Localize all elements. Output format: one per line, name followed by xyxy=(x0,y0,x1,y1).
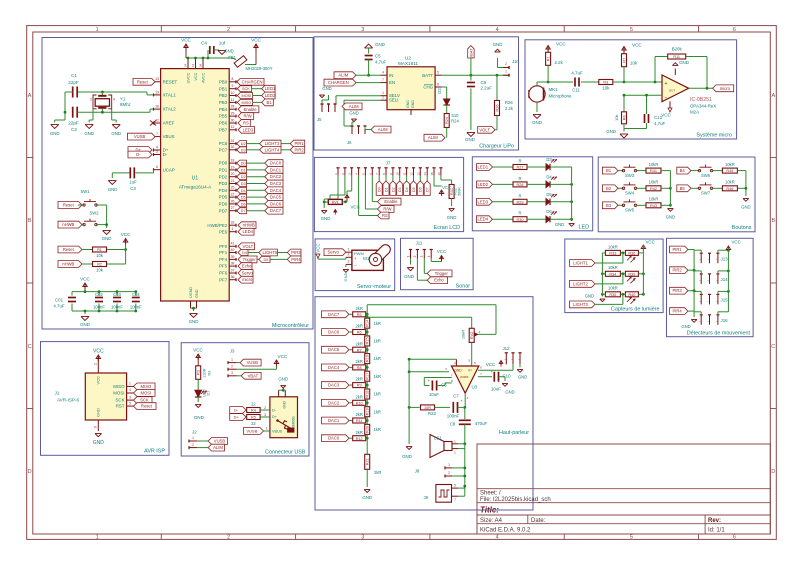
svg-text:R: R xyxy=(518,193,521,198)
svg-text:File: I2L2025bis.kicad_sch: File: I2L2025bis.kicad_sch xyxy=(480,497,551,503)
svg-text:6: 6 xyxy=(156,165,158,169)
svg-text:D4: D4 xyxy=(546,174,552,179)
svg-text:−: − xyxy=(354,263,357,268)
svg-text:PF5: PF5 xyxy=(219,264,228,269)
svg-text:R24: R24 xyxy=(451,119,459,124)
svg-text:27: 27 xyxy=(231,206,235,210)
svg-text:SW7: SW7 xyxy=(701,191,711,196)
svg-text:KiCad E.D.A. 9.0.2: KiCad E.D.A. 9.0.2 xyxy=(480,528,531,534)
svg-text:1kR: 1kR xyxy=(374,321,381,326)
svg-text:GND: GND xyxy=(493,42,503,47)
svg-text:PB0: PB0 xyxy=(219,79,228,84)
svg-text:SW4: SW4 xyxy=(625,191,635,196)
svg-text:R36: R36 xyxy=(628,252,635,256)
svg-text:R3: R3 xyxy=(603,81,608,85)
svg-text:VCC: VCC xyxy=(732,240,741,245)
svg-text:SW5: SW5 xyxy=(625,208,635,213)
svg-text:D6: D6 xyxy=(419,187,423,192)
svg-text:R/W: R/W xyxy=(244,114,252,119)
svg-text:33: 33 xyxy=(231,221,235,225)
svg-text:J14: J14 xyxy=(721,277,729,282)
svg-text:Reset: Reset xyxy=(63,247,75,252)
svg-text:38: 38 xyxy=(231,262,235,266)
svg-text:PIR1: PIR1 xyxy=(294,141,304,146)
svg-text:2: 2 xyxy=(505,62,507,66)
svg-text:+: + xyxy=(354,256,357,261)
svg-text:8: 8 xyxy=(232,77,234,81)
svg-text:GND: GND xyxy=(93,440,105,446)
svg-text:D3: D3 xyxy=(241,148,246,152)
svg-text:+: + xyxy=(665,81,668,87)
svg-text:LED4: LED4 xyxy=(242,229,253,234)
svg-text:13: 13 xyxy=(416,172,420,176)
svg-text:nHWB: nHWB xyxy=(62,262,74,267)
svg-text:D7: D7 xyxy=(426,187,430,192)
svg-text:R34: R34 xyxy=(609,272,616,276)
svg-text:GND: GND xyxy=(505,390,514,395)
svg-text:D5: D5 xyxy=(241,196,246,200)
svg-text:~: ~ xyxy=(699,258,701,262)
svg-text:Echo: Echo xyxy=(434,278,444,283)
svg-text:J5: J5 xyxy=(317,117,322,122)
svg-text:Enable: Enable xyxy=(244,107,258,112)
svg-text:C: C xyxy=(771,344,775,350)
svg-text:DAC2: DAC2 xyxy=(328,400,340,405)
svg-text:LED: LED xyxy=(579,225,590,231)
svg-text:J13: J13 xyxy=(721,257,729,262)
svg-text:Microphone: Microphone xyxy=(549,94,572,99)
svg-text:MOSI: MOSI xyxy=(113,391,124,396)
svg-text:~: ~ xyxy=(716,258,718,262)
svg-text:Reset: Reset xyxy=(141,404,153,409)
svg-text:LM386: LM386 xyxy=(460,375,469,379)
svg-text:4: 4 xyxy=(113,97,115,101)
svg-text:Enable: Enable xyxy=(384,199,398,204)
svg-text:1: 1 xyxy=(448,463,450,467)
svg-text:D-: D- xyxy=(136,152,141,157)
svg-text:GND: GND xyxy=(555,222,564,227)
svg-text:SCK: SCK xyxy=(115,398,124,403)
svg-text:PF6: PF6 xyxy=(219,271,228,276)
svg-text:MISO: MISO xyxy=(141,384,152,389)
svg-text:R8: R8 xyxy=(357,366,362,370)
svg-text:XTAL1: XTAL1 xyxy=(163,93,177,98)
svg-text:10kR: 10kR xyxy=(608,265,618,270)
svg-text:R26: R26 xyxy=(505,100,513,105)
svg-text:MISO: MISO xyxy=(242,101,252,105)
svg-text:Trigger: Trigger xyxy=(435,271,449,276)
svg-text:PIR1: PIR1 xyxy=(672,247,682,252)
svg-text:MAX1811: MAX1811 xyxy=(398,61,418,66)
svg-text:RESET: RESET xyxy=(163,79,178,84)
svg-text:D1: D1 xyxy=(241,168,246,172)
svg-text:DAC7: DAC7 xyxy=(270,208,282,213)
svg-text:J7: J7 xyxy=(386,161,391,166)
svg-text:J3: J3 xyxy=(230,349,235,354)
svg-text:PIR3: PIR3 xyxy=(291,250,301,255)
svg-text:D3: D3 xyxy=(241,182,246,186)
svg-text:GND: GND xyxy=(189,319,199,324)
svg-text:R35: R35 xyxy=(609,293,616,297)
svg-text:510: 510 xyxy=(452,113,460,118)
svg-text:~: ~ xyxy=(716,320,718,324)
svg-text:D5: D5 xyxy=(546,192,552,197)
svg-text:2: 2 xyxy=(192,443,194,447)
svg-text:~: ~ xyxy=(707,258,709,262)
svg-text:2kR: 2kR xyxy=(355,359,362,364)
svg-text:GND: GND xyxy=(50,131,60,136)
svg-text:GND: GND xyxy=(585,294,594,299)
svg-text:R/W: R/W xyxy=(383,207,391,212)
svg-text:U3: U3 xyxy=(472,385,478,390)
svg-text:VCC: VCC xyxy=(646,240,655,245)
svg-text:M1: M1 xyxy=(363,256,370,261)
svg-text:PD3: PD3 xyxy=(219,181,228,186)
svg-text:Servo: Servo xyxy=(327,250,339,255)
svg-text:C11: C11 xyxy=(572,88,580,93)
svg-text:R41: R41 xyxy=(650,169,657,173)
svg-text:220R: 220R xyxy=(203,368,207,377)
svg-text:Connecteur USB: Connecteur USB xyxy=(265,450,306,456)
svg-text:D+: D+ xyxy=(234,415,240,420)
svg-text:R: R xyxy=(518,159,521,164)
svg-text:1uF: 1uF xyxy=(129,180,137,185)
svg-text:Trigger: Trigger xyxy=(243,257,257,262)
svg-text:30: 30 xyxy=(231,118,235,122)
svg-text:M2A: M2A xyxy=(690,110,699,115)
svg-text:RS: RS xyxy=(243,121,249,126)
svg-text:2kR: 2kR xyxy=(374,470,381,475)
svg-text:4.7uF: 4.7uF xyxy=(53,304,65,309)
svg-text:10: 10 xyxy=(231,91,235,95)
svg-text:A: A xyxy=(28,93,32,99)
svg-text:GND: GND xyxy=(606,129,616,134)
svg-text:VUSB: VUSB xyxy=(134,134,146,139)
svg-text:~: ~ xyxy=(699,279,701,283)
svg-text:D2: D2 xyxy=(241,142,246,146)
svg-text:RS: RS xyxy=(382,213,388,218)
svg-text:LIGHT1: LIGHT1 xyxy=(573,261,588,266)
svg-text:R43: R43 xyxy=(650,204,657,208)
svg-text:4,7uF: 4,7uF xyxy=(571,71,583,76)
svg-text:GND: GND xyxy=(465,137,475,142)
svg-text:14: 14 xyxy=(191,64,195,67)
svg-text:DAC4: DAC4 xyxy=(270,188,282,193)
svg-text:J2: J2 xyxy=(192,430,197,435)
svg-text:GND: GND xyxy=(741,205,750,210)
svg-text:LIGHT3: LIGHT3 xyxy=(265,141,280,146)
svg-text:31: 31 xyxy=(231,139,235,143)
svg-text:AREF: AREF xyxy=(163,121,175,126)
svg-text:VCC: VCC xyxy=(121,232,131,237)
svg-text:26: 26 xyxy=(231,199,235,203)
svg-text:PB2: PB2 xyxy=(219,93,228,98)
svg-text:5: 5 xyxy=(454,483,456,487)
svg-text:−: − xyxy=(665,95,668,101)
svg-text:2kR: 2kR xyxy=(355,430,362,435)
svg-text:Boutons: Boutons xyxy=(732,225,752,231)
svg-text:LED1: LED1 xyxy=(478,165,489,170)
svg-text:1: 1 xyxy=(231,358,233,362)
svg-text:12: 12 xyxy=(410,172,414,176)
svg-text:PD1: PD1 xyxy=(219,168,228,173)
svg-text:VCC: VCC xyxy=(316,243,321,252)
svg-text:1kR: 1kR xyxy=(374,374,381,379)
svg-text:11: 11 xyxy=(403,172,407,175)
svg-text:4: 4 xyxy=(156,145,158,149)
svg-text:GND: GND xyxy=(447,215,457,220)
svg-text:RV1: RV1 xyxy=(332,201,339,205)
svg-text:3: 3 xyxy=(231,371,233,375)
svg-text:DAC0: DAC0 xyxy=(270,161,282,166)
svg-text:VCC: VCC xyxy=(96,376,101,385)
svg-text:R9: R9 xyxy=(357,384,362,388)
svg-text:D4: D4 xyxy=(241,189,246,193)
svg-text:GND: GND xyxy=(108,187,118,192)
svg-text:VUSB: VUSB xyxy=(246,429,257,434)
svg-text:micro: micro xyxy=(242,277,253,282)
svg-text:D6: D6 xyxy=(546,209,552,214)
svg-text:GND: GND xyxy=(322,86,331,91)
svg-text:LS1: LS1 xyxy=(434,436,442,441)
svg-text:25: 25 xyxy=(231,186,235,190)
svg-text:Chargeur LiPo: Chargeur LiPo xyxy=(479,144,514,150)
svg-text:RST: RST xyxy=(116,404,125,409)
svg-text:C01: C01 xyxy=(55,298,64,303)
svg-text:3: 3 xyxy=(361,535,364,541)
svg-text:39: 39 xyxy=(231,255,235,259)
svg-text:GND: GND xyxy=(321,216,331,221)
svg-text:10kR: 10kR xyxy=(649,180,659,185)
svg-text:PIR4: PIR4 xyxy=(291,257,301,262)
svg-text:CHG: CHG xyxy=(423,85,433,90)
svg-text:~: ~ xyxy=(707,279,709,283)
svg-text:C1: C1 xyxy=(71,73,77,78)
svg-text:Sonar: Sonar xyxy=(456,284,471,290)
svg-text:Ecran LCD: Ecran LCD xyxy=(434,225,460,231)
svg-text:SCK: SCK xyxy=(242,87,250,91)
svg-text:J16: J16 xyxy=(721,318,729,323)
svg-text:GND: GND xyxy=(362,495,372,500)
svg-text:Size: A4: Size: A4 xyxy=(480,518,503,524)
svg-text:BATT: BATT xyxy=(422,73,433,78)
svg-text:B2: B2 xyxy=(606,186,612,191)
svg-text:HWB/PE2: HWB/PE2 xyxy=(207,223,227,228)
svg-text:LED2: LED2 xyxy=(265,93,276,98)
svg-text:C9: C9 xyxy=(481,80,487,85)
svg-text:16: 16 xyxy=(155,105,159,109)
svg-text:VBUS: VBUS xyxy=(272,430,283,434)
svg-text:Capteurs de lumière: Capteurs de lumière xyxy=(611,307,660,313)
svg-text:VCC: VCC xyxy=(442,185,451,190)
svg-text:R3: R3 xyxy=(197,370,201,375)
svg-text:3: 3 xyxy=(129,395,131,399)
svg-text:PIR2: PIR2 xyxy=(294,147,304,152)
svg-text:PC6: PC6 xyxy=(219,141,228,146)
svg-text:GND: GND xyxy=(404,274,414,279)
svg-text:~: ~ xyxy=(699,320,701,324)
svg-text:OPA344-ReX: OPA344-ReX xyxy=(690,104,716,109)
svg-text:R19: R19 xyxy=(366,408,370,415)
svg-text:R22: R22 xyxy=(428,411,437,416)
svg-text:1kR: 1kR xyxy=(374,339,381,344)
svg-text:MOSI: MOSI xyxy=(242,94,252,98)
svg-text:1uf: 1uf xyxy=(219,41,226,46)
svg-text:SELI: SELI xyxy=(389,98,399,103)
svg-text:2: 2 xyxy=(413,255,417,257)
svg-text:R1: R1 xyxy=(547,56,551,61)
svg-text:UCAP: UCAP xyxy=(163,167,175,172)
svg-text:ALIM: ALIM xyxy=(378,127,388,132)
svg-text:D7: D7 xyxy=(241,209,246,213)
svg-text:VCC: VCC xyxy=(556,42,566,47)
svg-text:R27: R27 xyxy=(517,166,524,170)
svg-text:R6: R6 xyxy=(357,331,362,335)
svg-text:R45: R45 xyxy=(726,169,733,173)
svg-text:40: 40 xyxy=(231,248,235,252)
svg-text:D-: D- xyxy=(163,152,168,157)
svg-text:GND: GND xyxy=(349,111,358,116)
svg-text:C12: C12 xyxy=(654,115,663,120)
svg-text:ALIM: ALIM xyxy=(213,445,223,450)
svg-text:10kR: 10kR xyxy=(608,286,618,291)
svg-text:DAC0: DAC0 xyxy=(328,436,340,441)
svg-text:R14: R14 xyxy=(366,320,370,327)
svg-text:37: 37 xyxy=(231,268,235,272)
svg-text:R11: R11 xyxy=(673,55,680,59)
svg-text:PB1: PB1 xyxy=(219,86,228,91)
svg-text:5: 5 xyxy=(437,71,439,75)
svg-text:4: 4 xyxy=(382,71,384,75)
svg-text:3: 3 xyxy=(264,413,266,417)
svg-text:GND: GND xyxy=(454,369,462,373)
svg-text:D6: D6 xyxy=(241,202,246,206)
svg-text:AVCC: AVCC xyxy=(201,72,205,83)
svg-text:SCK: SCK xyxy=(140,398,149,403)
svg-text:VCC: VCC xyxy=(632,43,642,48)
svg-text:DAC5: DAC5 xyxy=(328,347,340,352)
svg-text:LIGHT3: LIGHT3 xyxy=(573,302,588,307)
svg-text:R: R xyxy=(518,211,521,216)
svg-text:C7: C7 xyxy=(453,394,459,399)
svg-text:8Mhz: 8Mhz xyxy=(120,102,131,107)
svg-text:DAC1: DAC1 xyxy=(270,167,282,172)
svg-text:VBAT: VBAT xyxy=(248,373,259,378)
svg-text:GND: GND xyxy=(343,272,348,281)
svg-text:UGND: UGND xyxy=(189,287,193,298)
svg-text:GND: GND xyxy=(375,42,385,47)
svg-text:10kR: 10kR xyxy=(608,244,618,249)
svg-text:SM06B: SM06B xyxy=(292,416,296,428)
svg-text:GND: GND xyxy=(518,375,527,380)
svg-text:14: 14 xyxy=(423,172,427,176)
svg-text:ALIM: ALIM xyxy=(349,104,359,109)
svg-text:2.2k: 2.2k xyxy=(555,60,564,65)
svg-text:1: 1 xyxy=(266,427,268,431)
svg-text:nHWB: nHWB xyxy=(243,223,255,228)
svg-text:4: 4 xyxy=(496,27,499,33)
svg-text:19: 19 xyxy=(231,165,235,169)
svg-text:VCC: VCC xyxy=(181,38,191,43)
svg-text:U1: U1 xyxy=(192,176,199,182)
svg-text:7: 7 xyxy=(454,498,456,502)
svg-text:34: 34 xyxy=(199,64,203,67)
svg-text:DAC4: DAC4 xyxy=(328,365,340,370)
svg-text:LIGHT2: LIGHT2 xyxy=(573,281,588,286)
svg-text:VBUS: VBUS xyxy=(163,134,175,139)
svg-text:PD4: PD4 xyxy=(219,188,228,193)
svg-text:1: 1 xyxy=(232,227,234,231)
svg-text:R16: R16 xyxy=(366,355,370,362)
svg-text:DAC3: DAC3 xyxy=(270,181,282,186)
svg-text:R20: R20 xyxy=(366,426,370,433)
svg-text:SW3: SW3 xyxy=(625,173,635,178)
svg-text:GND: GND xyxy=(406,100,410,108)
svg-text:10kR: 10kR xyxy=(725,162,735,167)
svg-text:4: 4 xyxy=(427,255,431,257)
svg-text:J9: J9 xyxy=(423,495,428,500)
svg-text:GND: GND xyxy=(278,377,288,382)
svg-text:D-: D- xyxy=(234,408,239,413)
svg-text:2: 2 xyxy=(348,253,350,257)
svg-text:VCC: VCC xyxy=(437,249,446,254)
svg-text:R2: R2 xyxy=(97,263,102,267)
svg-text:GND: GND xyxy=(402,454,412,459)
svg-text:R10: R10 xyxy=(356,401,363,405)
svg-text:VCC: VCC xyxy=(80,277,90,282)
svg-text:~: ~ xyxy=(699,299,701,303)
svg-text:100nF: 100nF xyxy=(447,414,460,419)
svg-text:4: 4 xyxy=(129,388,131,392)
svg-text:PB7: PB7 xyxy=(219,127,228,132)
svg-text:VCC: VCC xyxy=(194,72,198,80)
svg-text:D5: D5 xyxy=(412,187,416,192)
svg-text:1: 1 xyxy=(192,436,194,440)
svg-text:DAC3: DAC3 xyxy=(328,383,340,388)
svg-text:2: 2 xyxy=(382,96,384,100)
svg-text:PD5: PD5 xyxy=(219,195,228,200)
svg-text:VUSB: VUSB xyxy=(247,360,259,365)
svg-text:2: 2 xyxy=(264,406,266,410)
svg-text:DAC5: DAC5 xyxy=(270,195,282,200)
svg-text:21: 21 xyxy=(231,179,235,183)
svg-text:R26: R26 xyxy=(495,105,499,112)
svg-text:R40: R40 xyxy=(628,293,635,297)
svg-text:SW1: SW1 xyxy=(80,189,90,194)
svg-text:D1: D1 xyxy=(207,391,211,396)
svg-text:~: ~ xyxy=(716,279,718,283)
svg-text:Microcontrôleur: Microcontrôleur xyxy=(272,323,309,329)
svg-text:1: 1 xyxy=(96,27,99,33)
svg-text:PD2: PD2 xyxy=(219,174,228,179)
svg-text:29: 29 xyxy=(231,112,235,116)
svg-text:~: ~ xyxy=(716,299,718,303)
svg-text:100nF: 100nF xyxy=(111,305,123,310)
svg-text:R7: R7 xyxy=(357,348,362,352)
svg-text:R42: R42 xyxy=(650,187,657,191)
svg-text:2kR: 2kR xyxy=(355,324,362,329)
svg-text:D0: D0 xyxy=(378,187,382,192)
svg-text:PB6: PB6 xyxy=(219,121,228,126)
svg-text:MISO: MISO xyxy=(113,384,125,389)
svg-text:22: 22 xyxy=(251,421,256,426)
svg-text:B1: B1 xyxy=(606,168,612,173)
svg-text:R12: R12 xyxy=(356,437,363,441)
svg-text:D2: D2 xyxy=(391,187,395,192)
svg-text:PD0: PD0 xyxy=(219,161,228,166)
svg-text:10uF: 10uF xyxy=(491,387,501,392)
svg-text:VCC: VCC xyxy=(486,362,495,367)
